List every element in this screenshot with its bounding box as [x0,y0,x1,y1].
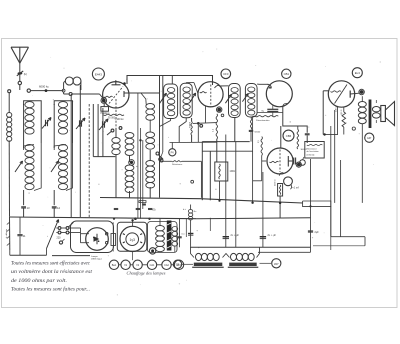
label CF3 [221,69,231,79]
svg-text:HP: HP [367,136,371,140]
antenna [11,46,29,48]
svg-text:Toutes les mesures sont faites: Toutes les mesures sont faites pour... [11,286,90,293]
wire IF1 A bottom diagonal [170,119,172,121]
power transformer core [167,221,172,251]
trimmer C bank1 [40,105,42,143]
wire EL3 bottom verticals [337,107,339,135]
tube U5 cathode [331,91,342,92]
choke tray outline [191,247,195,257]
svg-text:Toutes les mesures sont effect: Toutes les mesures sont effectuées avec [11,260,91,267]
svg-text:CF: CF [176,263,180,267]
terminal input [27,89,30,92]
svg-text:à châssis: à châssis [6,228,8,238]
oscillator coil col2 upper [125,133,134,139]
svg-text:CB6: CB6 [286,134,292,138]
svg-text:Potentiomètre: Potentiomètre [256,119,270,122]
terminal earth [59,241,62,244]
svg-text:E443: E443 [95,73,102,77]
node 6000kc [45,89,48,92]
arrow chassis diagonal [47,220,59,249]
wire antenna lead [19,63,21,70]
switch mains [66,227,69,230]
svg-text:Ba1: Ba1 [112,264,117,267]
rectifier tube V2 1883 [120,226,145,251]
svg-text:(1350 Ω): (1350 Ω) [307,154,315,156]
svg-text:≃1 mf: ≃1 mf [292,186,299,190]
svg-text:4000 Ω: 4000 Ω [275,179,277,186]
tube U1 grid dashed [109,87,123,104]
wire bus right drop [330,207,332,237]
svg-text:de 1000 ohms par volt.: de 1000 ohms par volt. [11,278,67,284]
wire gang vertical a [70,94,72,217]
tube U1 grid lead [115,99,117,128]
wire osc feed verticals [137,93,139,219]
wire IF1 feed verticals [159,76,161,198]
resistor detector load [297,130,299,150]
tube U4 plate [287,156,289,167]
wire gang vertical c [88,104,90,217]
output transformer secondary [372,107,380,112]
oscillator coil col3 lower [146,161,155,167]
svg-text:EL3: EL3 [355,71,361,75]
wire HT verticals mid [225,135,227,248]
svg-text:Résistance: Résistance [307,147,318,150]
label CB6 [283,130,294,141]
tube U4 cathode [270,161,279,162]
tube U4 grid dashed [279,150,281,173]
resistor R grid U4 [261,137,262,156]
label CB1 [282,69,291,78]
svg-text:180°: 180° [274,263,279,266]
svg-text:b.t.: b.t. [183,208,186,211]
wire padder verticals [92,104,94,157]
wire mid horizontal 151 [202,150,252,152]
IF2 transformer can A [229,84,241,118]
tube U3 CB1 envelope [266,81,292,107]
resistor R zigzag mid [216,114,217,139]
wire input row [31,90,63,92]
svg-text:2x ⊥ μF: 2x ⊥ μF [231,234,240,237]
arrow tuning bank1 [15,161,23,172]
voltage selector circle [149,248,155,254]
wire IF2 A bottom [234,118,236,142]
svg-text:50000: 50000 [254,132,261,134]
svg-text:1γ3: 1γ3 [129,238,135,242]
terminal block dl [139,201,146,203]
power transformer primary [156,226,165,231]
resistor padding [104,114,125,115]
tube U1 cathode [104,96,113,97]
resistor cathode EL3 [342,112,346,127]
wire speaker leads [375,100,377,103]
svg-text:1 MΩ: 1 MΩ [230,170,236,173]
output transformer core [369,100,372,129]
svg-text:150 Ω: 150 Ω [341,109,343,115]
wire IF2 B to resistor [250,117,252,118]
wire IF2 bottom bus [202,141,249,143]
tube U1 anode side [123,91,125,97]
wire IF2 B right out [257,112,283,114]
capacitor bt [190,205,192,210]
trimmer C oscillator [97,104,99,157]
tone connector M [360,90,364,94]
wire IF1 A top lead [171,76,173,85]
resistor R IF1 [191,122,192,136]
tube U3 grid arrow [259,83,269,85]
wire PSU right verticals [179,219,181,248]
heater supply label row [109,260,118,269]
field coil resistance box [305,142,324,159]
svg-text:CA2: CA2 [164,264,169,267]
wire excitation down [310,159,312,252]
switch contacts osc right [156,152,159,155]
oscillator coil col1 [112,138,120,144]
capacitor 8uF CB1 [267,108,278,110]
rectifier tube V1 [86,228,109,251]
capacitor 50000 node [249,129,253,131]
wire bus step right [303,201,331,207]
grid-cap connector U1 [102,99,106,103]
wire padder bottom bus [93,156,115,158]
wire bus chassis main [100,198,303,204]
wire bank2 left vertical [53,104,55,148]
wire pot left vertical [253,115,256,117]
wire bank1 left vertical [23,104,25,148]
capacitor filter 8uF b [260,236,266,238]
wire AF line down [170,141,217,143]
node junctions main bus [251,202,253,204]
tube U5 grid diagonal [335,85,348,104]
tuned circuit L3 bank1 upper coil [24,101,42,105]
wire IF1 B bottom [179,118,186,143]
svg-text:(9): (9) [153,209,156,212]
coupling plate EL3 [349,91,351,98]
resistor R diode load [250,118,251,129]
switch top osc [111,129,114,132]
svg-text:Chauffage des lampes: Chauffage des lampes [127,271,166,276]
capacitor filter 8uF a [223,236,229,238]
svg-text:2μF: 2μF [315,231,320,234]
svg-text:PV: PV [171,151,175,155]
padding trimmer block [101,107,109,112]
resistor R cathode U4 [278,184,283,197]
arrow IF2 trimmer B [242,94,248,102]
svg-text:Résistance: Résistance [172,163,183,166]
resistor between rectifiers [111,234,116,246]
svg-text:12: 12 [57,206,61,210]
wire U4 grid stub [262,160,267,162]
svg-text:6000 kc: 6000 kc [39,85,49,89]
wire EL3 grid [323,90,328,92]
wire U2 bottom [205,106,207,123]
coil L2 antenna shunt [8,90,11,93]
wire U4 plate up to AF [322,91,324,135]
svg-text:1883 régul.: 1883 régul. [91,258,102,261]
tuned circuit bank2 lower coil [58,145,67,151]
wire IF2 B top to CB1 [257,83,259,85]
wire row 2 [64,93,69,95]
rectifier V1 box [71,221,114,253]
grid-cap connector U4 [297,163,301,167]
arrow IF1 trimmer B [190,93,195,102]
capacitor 12 bank2 [52,206,57,208]
tube U3 cathode hook [283,103,288,106]
trimmer C gang b [79,85,81,217]
arrow IF1 trimmer A [160,93,167,103]
IF1 transformer can B [180,83,192,118]
node IF1 out [197,122,200,125]
label HP2 [272,259,281,268]
filter choke 2 [231,253,237,260]
rectifier V2 box [117,222,147,251]
wire bottom left rail [9,250,11,255]
wire mid vertical 210 [209,151,211,200]
svg-text:220: 220 [57,237,62,240]
wire top bus stage1 [127,76,213,86]
filter choke 1 [196,253,202,260]
switch contact row2 [69,93,72,96]
label PV [169,149,176,156]
terminal cathode EL3 [352,127,355,130]
wire bank2 right vertical [72,105,74,143]
wire IF1 B top to grid [185,82,187,85]
capacitor 13 bank1 [21,206,26,208]
svg-text:(k): (k) [24,72,27,76]
capacitor filter bt [188,233,193,234]
speaker HP [381,106,386,122]
wire left chassis drop [8,141,10,217]
svg-text:de l’excitation: de l’excitation [307,150,319,153]
tuned circuit bank2 upper coil [54,101,72,105]
tube U1 ECH3 envelope [103,82,129,108]
tube U5 EL3 envelope [328,81,354,107]
wire bus pair lower [191,246,311,248]
svg-text:2x ⊥ μF: 2x ⊥ μF [268,234,277,237]
arrow IF2 trimmer A [225,94,231,103]
switch S antenna [17,71,23,76]
terminal excitation [300,160,306,166]
capacitor CB1 out [305,133,310,135]
oscillator coil col2 lower [125,165,134,171]
label ECH3 [92,68,104,80]
wire bus lower left [10,217,197,219]
capacitor row mid verticals [114,207,118,209]
svg-text:un voltmètre dont la résistanc: un voltmètre dont la résistance est [11,269,93,275]
power transformer secondary [172,227,178,232]
IF2 transformer can B [245,84,257,118]
mains terminals [58,227,61,230]
chassis bracket left [9,217,11,250]
tube U2 plate hook [215,85,220,88]
switch wiper osc [130,161,133,164]
arrow tuning bank2 [51,161,59,172]
svg-text:50000: 50000 [189,121,191,128]
tube U2 CF3 envelope [198,82,223,107]
capacitor 11 [19,217,21,234]
svg-text:Lampe: Lampe [91,256,98,258]
tube U2 grid dashed [210,85,212,107]
potentiometer volume [255,116,278,117]
choke core 2 [229,263,257,266]
svg-text:CF3: CF3 [223,72,229,76]
capacitor cathode 1mF [284,177,293,186]
resistor box 1M [215,162,228,181]
switch wave-change [162,130,164,152]
output transformer primary [358,102,366,107]
svg-text:13: 13 [27,206,31,210]
resistor PV shunt [161,160,171,162]
wire bottom right horizontal [331,236,365,238]
grid-cap connector U2 [217,108,221,112]
grid coupling U4 [293,158,295,165]
node junctions lower bus [134,217,137,220]
IF1 transformer can A [164,84,178,119]
wire row 2b [72,93,99,95]
tube U4 CBL6 envelope [267,148,293,174]
coupling coil L1 [63,90,64,92]
node grid cap U1 [123,82,126,85]
power transformer box [148,222,178,253]
label CF tray [173,260,181,268]
tuned circuit bank1 lower coil [25,145,34,151]
capacitor out 2uF [308,230,313,232]
wire AF coupling horizontal [323,134,338,136]
choke core 1 [194,263,223,266]
wire PV right vertical [182,160,202,162]
terminal cathode U2 [221,114,224,117]
tube U4 cathode hook [279,173,283,176]
wire U4 top grid [280,126,282,148]
oscillator coil col3 upper [146,132,155,138]
terminal antenna [18,81,21,84]
svg-text:CB1: CB1 [284,72,290,76]
svg-text:≈ 100 kc.: ≈ 100 kc. [115,118,125,121]
oscillator anode coil col3 top [146,104,155,110]
svg-text:CA1: CA1 [150,264,155,267]
wire mid vertical 202 [201,142,203,201]
wire 240v vertical [334,110,336,203]
tube U1 plate [112,84,121,86]
label HP [365,133,374,142]
wire CB1 output L [283,107,307,133]
label EL3 [352,68,362,78]
tube U2 cathode [200,92,207,93]
wire transformer down [361,130,363,203]
